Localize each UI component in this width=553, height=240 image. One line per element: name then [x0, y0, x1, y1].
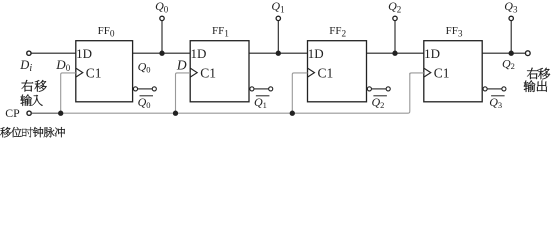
svg-text:C1: C1 — [318, 66, 334, 81]
label 右移输出 (right-shift output) — [527, 68, 550, 80]
wire: Q output of FF0 — [133, 52, 191, 54]
label 右移输入 (right-shift input) — [22, 80, 47, 92]
dynamic clock input triangle of FF0 — [76, 68, 83, 77]
wire: serial data input Di to FF0 1D — [27, 51, 76, 55]
svg-text:C1: C1 — [200, 66, 216, 81]
inverted output Qbar2: bubble, stub, terminal — [367, 87, 390, 91]
terminal: right-shift serial output (open circle) — [525, 51, 530, 56]
dynamic clock input triangle of FF1 — [190, 68, 197, 77]
CP clock input terminal — [27, 111, 61, 115]
label Qbar2 — [373, 95, 387, 97]
inverted output Qbar0: bubble, stub, terminal — [133, 87, 156, 91]
wire: clock rail CP — [61, 73, 410, 113]
flip-flop FF1 body — [190, 41, 249, 102]
label Qbar1 — [256, 95, 270, 97]
svg-text:C1: C1 — [86, 66, 102, 81]
wire: Q output of FF3 — [482, 52, 525, 54]
node Q1: junction dot — [276, 51, 281, 56]
label Qbar3 — [491, 95, 505, 97]
dynamic clock input triangle of FF2 — [308, 68, 315, 77]
terminal Q1 (open circle) — [276, 16, 280, 20]
svg-text:C1: C1 — [434, 66, 450, 81]
junction on clock rail at FF2 riser — [290, 111, 295, 116]
inverted output Qbar1: bubble, stub, terminal — [250, 87, 273, 91]
wire: Q output of FF2 — [367, 52, 424, 54]
junction on clock rail at FF0 riser — [58, 111, 63, 116]
flip-flop FF2 body — [308, 41, 367, 102]
wire: clock riser and jog into FF2 C1 — [292, 73, 307, 113]
inverted output Qbar3: bubble, stub, terminal — [483, 87, 506, 91]
terminal Q0 (open circle) — [160, 16, 164, 20]
svg-text:1D: 1D — [424, 46, 440, 61]
svg-text:1D: 1D — [191, 46, 207, 61]
wire: clock riser and jog into FF3 C1 — [410, 73, 424, 75]
dynamic clock input triangle of FF3 — [424, 68, 431, 77]
svg-text:1D: 1D — [76, 46, 92, 61]
wire: clock riser and jog into FF0 C1 — [61, 73, 76, 113]
flip-flop FF3 body — [424, 41, 482, 102]
node Q0: junction dot — [159, 51, 164, 56]
terminal Q2 (open circle) — [393, 16, 397, 20]
wire: riser to Q0 terminal — [161, 21, 163, 53]
terminal Q3 (open circle) — [509, 16, 513, 20]
label 移位时钟脉冲 (shift clock pulse) — [0, 127, 65, 137]
svg-text:D: D — [176, 58, 187, 73]
node Q3: junction dot — [509, 51, 514, 56]
wire: Q output of FF1 — [249, 52, 308, 54]
wire: riser to Q2 terminal — [394, 21, 396, 53]
junction on clock rail at FF1 riser — [173, 111, 178, 116]
svg-text:1D: 1D — [308, 46, 324, 61]
wire: riser to Q3 terminal — [510, 21, 512, 53]
wire: riser to Q1 terminal — [277, 21, 279, 53]
svg-text:CP: CP — [5, 106, 20, 120]
label Qbar0 — [140, 95, 154, 97]
flip-flop FF0 body — [76, 41, 133, 102]
wire: clock riser and jog into FF1 C1 — [176, 73, 191, 113]
node Q2: junction dot — [392, 51, 397, 56]
